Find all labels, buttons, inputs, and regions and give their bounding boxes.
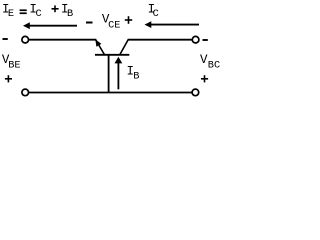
label IE = IC + IB [2, 3, 73, 20]
minus sign of VCE [86, 22, 93, 24]
svg-text:C: C [153, 8, 159, 20]
label VCE [102, 13, 121, 32]
svg-text:V: V [200, 53, 208, 67]
collector terminal circle [192, 36, 199, 43]
current arrow IE [23, 22, 77, 29]
bottom rail wire [29, 92, 192, 94]
base terminal circle (left) [22, 89, 29, 96]
transistor Q1 collector diagonal [120, 40, 128, 55]
wire emitter terminal to transistor [29, 39, 97, 41]
svg-text:BC: BC [208, 60, 220, 72]
emitter terminal circle [22, 36, 29, 43]
plus sign at base-emitter side [5, 75, 12, 82]
svg-text:B: B [133, 70, 139, 82]
svg-text:CE: CE [108, 19, 120, 31]
plus sign at base-collector side [201, 75, 208, 82]
svg-text:B: B [67, 8, 73, 20]
transistor Q1 emitter with arrow [95, 39, 104, 54]
label VBC [200, 53, 220, 72]
wire collector terminal to transistor [128, 39, 192, 41]
svg-text:BE: BE [8, 59, 20, 71]
transistor Q1 base bar [95, 54, 129, 56]
plus sign of VCE [125, 16, 132, 24]
label IC [148, 3, 159, 21]
label IB [127, 65, 140, 83]
wire base to bottom rail [108, 55, 110, 93]
minus sign at emitter terminal [3, 38, 8, 40]
current arrow IC [145, 21, 200, 28]
current arrow IB [115, 57, 123, 90]
base terminal circle (right) [192, 89, 199, 96]
minus sign at collector terminal [203, 39, 208, 41]
svg-text:C: C [36, 8, 42, 20]
label VBE [2, 53, 21, 71]
svg-text:E: E [8, 8, 14, 20]
